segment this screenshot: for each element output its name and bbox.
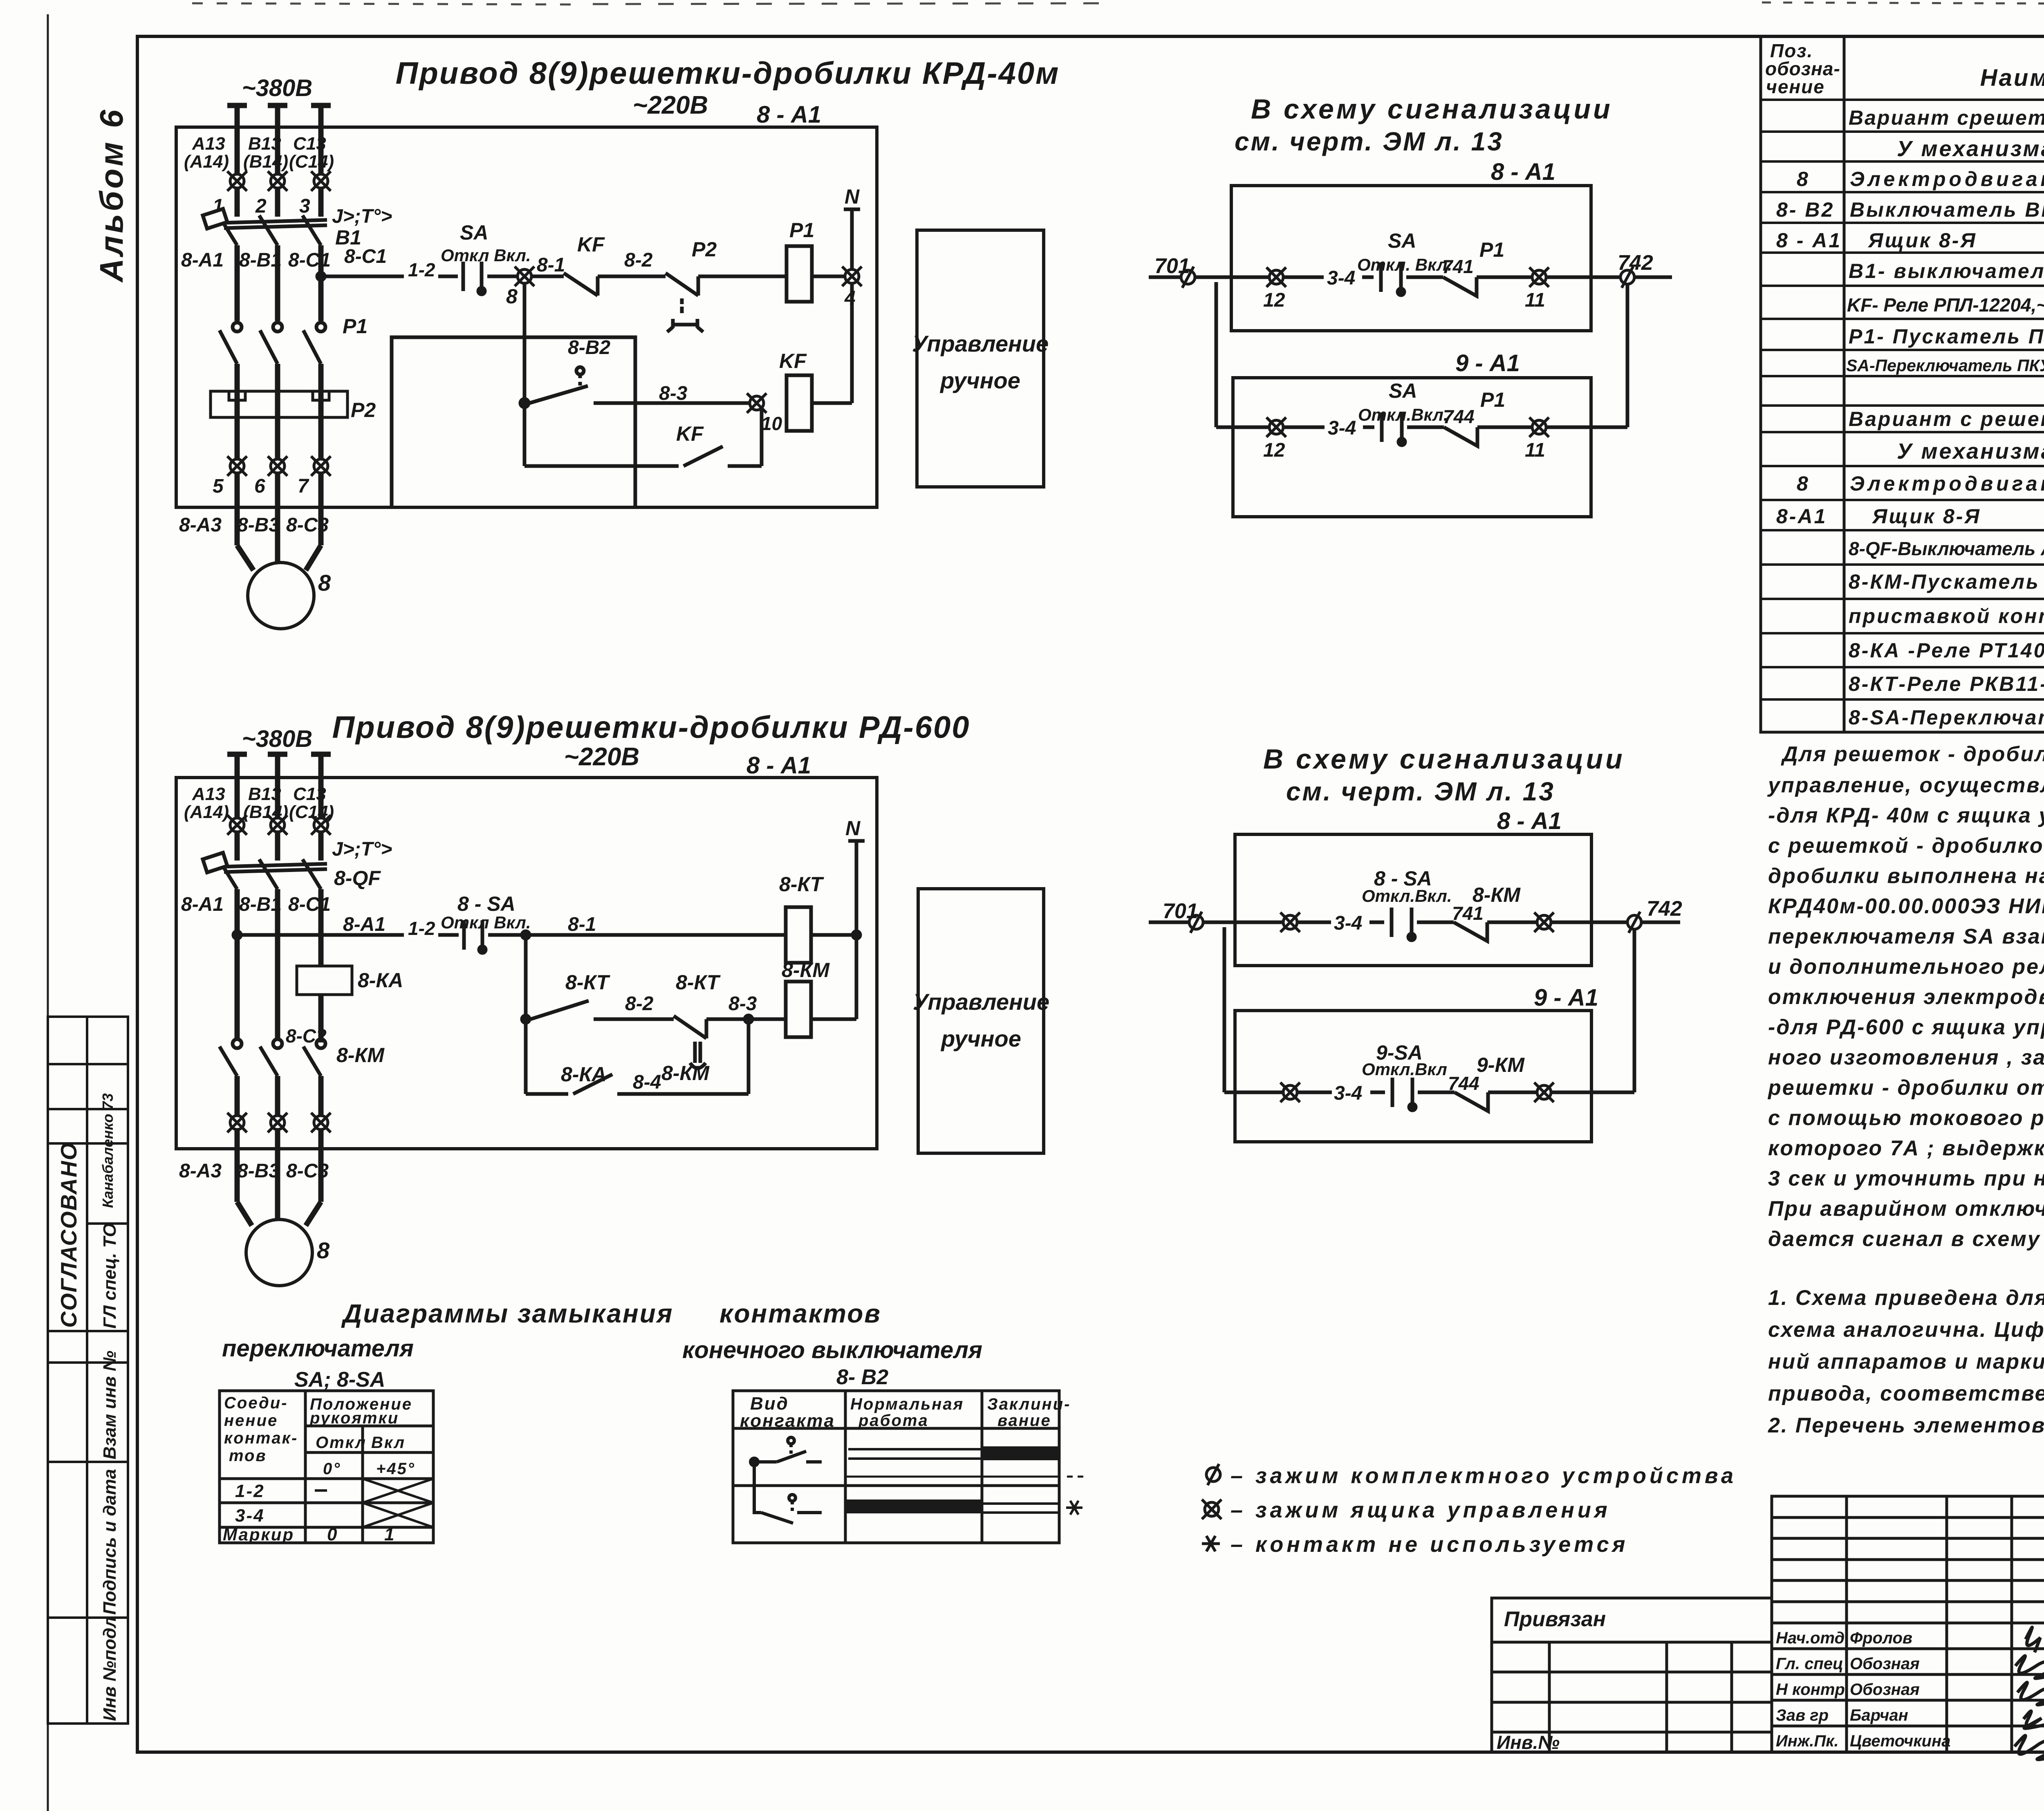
svg-text:А13: А13	[192, 784, 225, 804]
svg-text:привода, соответственно меняе: привода, соответственно меняется на 9.	[1768, 1382, 2044, 1405]
svg-text:управление, осуществляемое·: управление, осуществляемое·	[1767, 773, 2044, 797]
svg-text:742: 742	[1618, 251, 1653, 275]
svg-text:В13: В13	[248, 134, 281, 154]
svg-text:6: 6	[254, 475, 265, 497]
svg-text:дается сигнал в схему ав: дается сигнал в схему аварийной сигнализ…	[1768, 1227, 2044, 1251]
svg-text:Зав гр: Зав гр	[1776, 1706, 1829, 1724]
svg-text:чение: чение	[1766, 76, 1825, 97]
svg-text:8 - А1: 8 - А1	[757, 101, 821, 128]
svg-text:8 - А1: 8 - А1	[1491, 159, 1555, 185]
svg-text:нение: нение	[224, 1412, 278, 1430]
svg-text:8-3: 8-3	[659, 383, 688, 404]
svg-text:5: 5	[213, 475, 224, 497]
svg-text:Маркир: Маркир	[223, 1525, 294, 1544]
svg-text:ного изготовления , защита: ного изготовления , защита электродвигат…	[1768, 1046, 2044, 1069]
svg-text:1-2: 1-2	[235, 1481, 265, 1501]
svg-text:8-А1: 8-А1	[181, 894, 224, 915]
svg-text:Привязан: Привязан	[1504, 1607, 1606, 1631]
svg-text:В1- выключатель АЕ2033-10УЗ,: В1- выключатель АЕ2033-10УЗ, Jр 8А	[1849, 260, 2044, 282]
svg-text:Откл: Откл	[316, 1434, 367, 1452]
svg-text:ний аппаратов и маркировки: ний аппаратов и маркировки целей, обозна…	[1768, 1350, 2044, 1374]
svg-text:8-А3: 8-А3	[179, 514, 222, 536]
svg-text:8 - А1: 8 - А1	[1497, 808, 1562, 834]
svg-text:8-КМ-Пускатель ПМЛ110104, ~22: 8-КМ-Пускатель ПМЛ110104, ~220В с	[1849, 570, 2044, 593]
svg-text:(А14): (А14)	[184, 152, 229, 172]
svg-text:Электродвигатель 4А112МВ8: Электродвигатель 4А112МВ8	[1850, 168, 2044, 191]
svg-text:Привод 8(9)решетки-дробилки РД: Привод 8(9)решетки-дробилки РД-600	[332, 710, 970, 745]
svg-text:Инж.Пк.: Инж.Пк.	[1776, 1732, 1839, 1750]
svg-text:8-КМ: 8-КМ	[782, 959, 830, 982]
svg-text:которого 7А ; выдержку вре: которого 7А ; выдержку времени реле 8- К…	[1768, 1136, 2044, 1160]
svg-text:1. Схема приведена для прив: 1. Схема приведена для привода 8 Для при…	[1768, 1286, 2044, 1310]
svg-text:Привод 8(9)решетки-дробилки КР: Привод 8(9)решетки-дробилки КРД-40м	[396, 56, 1060, 91]
svg-text:рукоятки: рукоятки	[309, 1409, 399, 1427]
svg-text:N: N	[845, 185, 860, 208]
svg-text:КРД40м-00.00.000ЭЗ НИКТИ ГХ: КРД40м-00.00.000ЭЗ НИКТИ ГХ г. Киев с ус…	[1768, 894, 2044, 918]
svg-text:работа: работа	[858, 1412, 929, 1430]
svg-text:Инв №подл: Инв №подл	[100, 1616, 120, 1721]
svg-text:7: 7	[298, 475, 309, 497]
svg-text:2. Перечень элементов приве: 2. Перечень элементов приведен на один п…	[1768, 1414, 2044, 1437]
svg-text:С13: С13	[293, 134, 326, 154]
svg-text:Выключатель ВПК-1110: Выключатель ВПК-1110	[1850, 198, 2044, 221]
svg-text:8- В2: 8- В2	[836, 1365, 888, 1389]
svg-text:Р2: Р2	[351, 399, 376, 421]
svg-text:контактов: контактов	[719, 1299, 881, 1328]
svg-text:+45°: +45°	[376, 1460, 415, 1478]
svg-text:8-А1: 8-А1	[343, 914, 385, 935]
svg-text:контак-: контак-	[224, 1429, 298, 1447]
svg-text:При аварийном отключении эле: При аварийном отключении электродвигател…	[1768, 1197, 2044, 1221]
svg-text:см. черт. ЭМ л. 13: см. черт. ЭМ л. 13	[1286, 777, 1555, 806]
svg-text:(В14): (В14)	[243, 802, 288, 822]
svg-text:Откл.Вкл.: Откл.Вкл.	[1362, 886, 1452, 905]
svg-text:SА: SА	[460, 221, 488, 244]
svg-text:3-4: 3-4	[1328, 417, 1356, 439]
svg-text:вание: вание	[997, 1412, 1051, 1430]
svg-text:3 сек и уточнить при нал: 3 сек и уточнить при наладке и эксплуата…	[1768, 1167, 2044, 1190]
svg-text:~380В: ~380В	[242, 75, 313, 101]
svg-text:переключателя SА взамен: переключателя SА взамен кнопок управлени…	[1768, 925, 2044, 948]
svg-text:Наименование: Наименование	[1980, 65, 2044, 91]
svg-text:-для РД-600 с ящика управл: -для РД-600 с ящика управления индивидуа…	[1768, 1015, 2044, 1039]
svg-text:В схему сигнализации: В схему сигнализации	[1263, 744, 1625, 775]
svg-text:Р1: Р1	[1480, 388, 1505, 411]
svg-text:8-А3: 8-А3	[179, 1160, 222, 1182]
svg-text:8-КТ: 8-КТ	[565, 971, 611, 994]
svg-text:8-В1: 8-В1	[239, 249, 282, 271]
svg-text:Откл.Вкл: Откл.Вкл	[1362, 1060, 1447, 1079]
svg-text:ручное: ручное	[939, 368, 1020, 393]
svg-text:8-В3: 8-В3	[237, 1160, 280, 1182]
svg-text:8-С3: 8-С3	[286, 514, 329, 536]
svg-text:решетки - дробилки от перег: решетки - дробилки от перегрузки осущест…	[1767, 1076, 2044, 1100]
svg-text:8-КА -Реле РТ140/10УХЛ4 , 7А: 8-КА -Реле РТ140/10УХЛ4 , 7А	[1849, 639, 2044, 662]
svg-text:8 - А1: 8 - А1	[746, 752, 811, 779]
svg-text:Вариант с решеткой-дробилкой Р: Вариант с решеткой-дробилкой РД-600	[1849, 408, 2044, 430]
svg-text:конгакта: конгакта	[740, 1411, 835, 1431]
svg-text:8: 8	[317, 1237, 330, 1263]
svg-text:8: 8	[318, 570, 331, 596]
svg-text:У механизма: У механизма	[1897, 439, 2044, 464]
svg-text:11: 11	[1525, 289, 1545, 311]
svg-text:Соеди-: Соеди-	[224, 1394, 288, 1412]
svg-text:8-2: 8-2	[624, 249, 653, 271]
svg-text:1-2: 1-2	[408, 918, 435, 939]
svg-text:Откл. Вкл.: Откл. Вкл.	[1357, 255, 1452, 274]
svg-text:741: 741	[1442, 256, 1474, 277]
svg-text:Р1: Р1	[789, 219, 814, 242]
svg-text:8-С1: 8-С1	[288, 249, 331, 271]
svg-text:с решеткой - дробилкой. Схема: с решеткой - дробилкой. Схема управления…	[1768, 834, 2044, 858]
svg-text:~220В: ~220В	[564, 743, 639, 771]
svg-text:Управление: Управление	[912, 331, 1049, 356]
svg-text:1: 1	[384, 1524, 395, 1544]
svg-text:9 - А1: 9 - А1	[1455, 350, 1520, 377]
svg-text:8-1: 8-1	[568, 914, 596, 935]
svg-text:8-QF-Выключатель АЕ2026-10Н-2: 8-QF-Выключатель АЕ2026-10Н-20УЗА, Jр 4А	[1849, 538, 2044, 559]
svg-text:С13: С13	[293, 784, 326, 804]
svg-text:В схему сигнализации: В схему сигнализации	[1251, 94, 1613, 125]
svg-text:конечного выключателя: конечного выключателя	[682, 1337, 982, 1363]
svg-text:У механизма: У механизма	[1897, 137, 2044, 161]
svg-text:KF- Реле РПЛ-12204,~220В, ТУ16: KF- Реле РПЛ-12204,~220В, ТУ16-523 554-7…	[1847, 294, 2044, 316]
svg-text:11: 11	[1525, 439, 1545, 461]
svg-text:701: 701	[1154, 254, 1190, 278]
svg-text:701: 701	[1163, 899, 1198, 923]
svg-text:Откл Вкл.: Откл Вкл.	[441, 913, 531, 932]
svg-text:742: 742	[1647, 897, 1682, 921]
svg-text:8-КТ: 8-КТ	[676, 971, 721, 994]
svg-text:тов: тов	[229, 1447, 267, 1465]
svg-text:Гл. спец: Гл. спец	[1776, 1655, 1843, 1673]
svg-text:– зажим комплектного ус: – зажим комплектного устройства	[1230, 1464, 1737, 1488]
svg-text:8-С1: 8-С1	[288, 894, 331, 915]
svg-text:SА: SА	[1388, 229, 1416, 252]
svg-text:В13: В13	[248, 784, 281, 804]
svg-text:8: 8	[1797, 472, 1810, 495]
svg-text:Канабаленко 73: Канабаленко 73	[99, 1093, 116, 1208]
svg-text:3-4: 3-4	[1327, 267, 1355, 289]
svg-text:8-А1: 8-А1	[181, 249, 224, 271]
svg-text:Ящик 8-Я: Ящик 8-Я	[1871, 505, 1981, 528]
svg-text:переключателя: переключателя	[222, 1335, 414, 1362]
svg-text:8: 8	[1797, 168, 1810, 191]
svg-text:9-КМ: 9-КМ	[1477, 1053, 1525, 1076]
svg-text:8-С1: 8-С1	[344, 246, 387, 267]
svg-text:Альбом 6: Альбом 6	[93, 108, 130, 283]
svg-text:(В14): (В14)	[243, 152, 288, 172]
svg-text:10: 10	[761, 413, 782, 434]
svg-text:– зажим ящика упра: – зажим ящика управления	[1230, 1498, 1611, 1522]
svg-text:8-В1: 8-В1	[239, 894, 282, 915]
svg-text:8-С3: 8-С3	[286, 1160, 329, 1182]
svg-text:KF: KF	[779, 350, 807, 372]
svg-text:8- В2: 8- В2	[1776, 198, 1834, 221]
svg-text:Р1: Р1	[1479, 238, 1504, 261]
svg-text:приставкой контактной ПКЛ-11: приставкой контактной ПКЛ-1104	[1849, 605, 2044, 628]
svg-text:Инв.№: Инв.№	[1497, 1732, 1560, 1753]
svg-text:Для решеток - дробилок пре: Для решеток - дробилок предусматривается…	[1781, 742, 2044, 766]
svg-text:Н контр: Н контр	[1776, 1681, 1845, 1699]
svg-text:(С14): (С14)	[289, 152, 334, 172]
svg-text:8-КА: 8-КА	[358, 969, 403, 992]
svg-text:-для КРД- 40м с ящика упра: -для КРД- 40м с ящика управления, постав…	[1768, 804, 2044, 827]
svg-text:1-2: 1-2	[408, 259, 435, 280]
svg-text:8-1: 8-1	[537, 254, 565, 276]
svg-text:8 - А1: 8 - А1	[1776, 229, 1842, 252]
svg-text:9 - А1: 9 - А1	[1534, 984, 1598, 1011]
svg-text:12: 12	[1263, 439, 1285, 461]
svg-text:Подпись и дата: Подпись и дата	[100, 1469, 120, 1615]
svg-text:4: 4	[844, 287, 856, 309]
svg-text:KF: KF	[577, 233, 605, 256]
svg-text:12: 12	[1263, 289, 1285, 311]
svg-text:СОГЛАСОВАНО: СОГЛАСОВАНО	[56, 1142, 81, 1328]
svg-text:(А14): (А14)	[184, 802, 229, 822]
svg-text:Заклини-: Заклини-	[987, 1395, 1071, 1413]
svg-text:8-КТ: 8-КТ	[779, 873, 825, 896]
svg-text:Р2: Р2	[692, 238, 717, 261]
svg-text:Нач.отд: Нач.отд	[1776, 1629, 1845, 1647]
svg-text:8-С2: 8-С2	[286, 1025, 327, 1047]
svg-text:8 - SА: 8 - SА	[457, 892, 515, 915]
svg-text:J>;Т°>: J>;Т°>	[332, 206, 392, 227]
svg-text:Электродвигатель. 4АМХ80В4: Электродвигатель. 4АМХ80В4	[1850, 472, 2044, 495]
svg-text:Нормальная: Нормальная	[850, 1395, 964, 1413]
svg-text:SА; 8-SА: SА; 8-SА	[294, 1368, 385, 1392]
svg-text:Р1: Р1	[343, 315, 368, 338]
svg-text:3-4: 3-4	[1334, 1083, 1362, 1104]
svg-text:8-SА-Переключатель ПКУЗ-14U-0: 8-SА-Переключатель ПКУЗ-14U-0103В	[1849, 706, 2044, 729]
svg-text:8-QF: 8-QF	[334, 867, 381, 890]
svg-text:Барчан: Барчан	[1850, 1706, 1908, 1724]
svg-text:отключения электродвигателя: отключения электродвигателя при перегруз…	[1768, 985, 2044, 1009]
svg-text:Взам инв №: Взам инв №	[100, 1351, 120, 1459]
svg-text:Цветочкина: Цветочкина	[1850, 1732, 1950, 1750]
svg-text:Откл.Вкл.: Откл.Вкл.	[1358, 405, 1448, 424]
svg-text:8-КА: 8-КА	[561, 1063, 606, 1086]
svg-text:Вкл: Вкл	[371, 1434, 406, 1452]
svg-text:Обозная: Обозная	[1850, 1655, 1920, 1673]
svg-text:Откл Вкл.: Откл Вкл.	[441, 246, 531, 265]
svg-text:SА-Переключатель ПКУЗ-14U-0103: SА-Переключатель ПКУЗ-14U-01038, ТУ16-64…	[1846, 356, 2044, 375]
svg-text:3-4: 3-4	[235, 1506, 265, 1526]
svg-text:(С14): (С14)	[289, 802, 334, 822]
svg-text:схема аналогична. Цифра 8: схема аналогична. Цифра 8 в левой части …	[1768, 1318, 2044, 1342]
svg-text:дробилки выполнена на ос: дробилки выполнена на основании чертежа	[1768, 864, 2044, 888]
svg-text:N: N	[845, 817, 861, 840]
svg-text:~380В: ~380В	[242, 726, 313, 752]
svg-text:Р1- Пускатель ПМЕ-112, ~220В: Р1- Пускатель ПМЕ-112, ~220В	[1849, 325, 2044, 348]
svg-text:3: 3	[299, 195, 310, 217]
svg-text:Диаграммы замыкания: Диаграммы замыкания	[341, 1299, 673, 1328]
svg-text:Обозная: Обозная	[1850, 1681, 1920, 1699]
svg-text:8-3: 8-3	[728, 993, 757, 1015]
svg-text:Ящик 8-Я: Ящик 8-Я	[1867, 229, 1977, 252]
svg-text:Управление: Управление	[913, 989, 1049, 1015]
svg-text:8-2: 8-2	[625, 993, 654, 1015]
svg-text:8-КМ: 8-КМ	[1472, 883, 1521, 906]
svg-text:8: 8	[506, 285, 518, 308]
svg-text:см. черт. ЭМ л. 13: см. черт. ЭМ л. 13	[1235, 127, 1504, 156]
svg-text:J>;Т°>: J>;Т°>	[332, 838, 392, 860]
svg-text:8-А1: 8-А1	[1776, 505, 1827, 528]
svg-text:8-4: 8-4	[633, 1071, 661, 1093]
svg-text:Фролов: Фролов	[1850, 1629, 1912, 1647]
svg-text:SА: SА	[1389, 379, 1417, 402]
svg-text:744: 744	[1448, 1073, 1479, 1094]
svg-text:744: 744	[1443, 406, 1475, 427]
svg-text:ручное: ручное	[940, 1026, 1021, 1051]
svg-text:Вариант срешеткой-дробилкой КР: Вариант срешеткой-дробилкой КРД-40м	[1849, 106, 2044, 129]
svg-text:8-В2: 8-В2	[568, 337, 610, 359]
svg-text:8-КТ-Реле РКВ11-33-122УХЛ4: 8-КТ-Реле РКВ11-33-122УХЛ4	[1849, 672, 2044, 695]
svg-text:8-КМ: 8-КМ	[661, 1062, 710, 1085]
svg-text:0°: 0°	[323, 1460, 341, 1478]
svg-text:8-В3: 8-В3	[237, 514, 280, 536]
svg-text:~220В: ~220В	[633, 91, 708, 119]
svg-text:2: 2	[255, 195, 267, 217]
svg-text:А13: А13	[192, 134, 225, 154]
svg-text:3-4: 3-4	[1334, 912, 1362, 934]
svg-text:KF: KF	[676, 422, 704, 445]
svg-text:ГЛ спец. ТО: ГЛ спец. ТО	[100, 1223, 120, 1329]
svg-text:– контакт не используется: – контакт не используется	[1230, 1532, 1628, 1557]
svg-text:и дополнительного реле: и дополнительного реле KF для аварийного	[1768, 955, 2044, 979]
svg-text:0: 0	[327, 1524, 338, 1544]
svg-text:с помощью токового реле: с помощью токового реле 8-КА, ток срабат…	[1768, 1106, 2044, 1130]
svg-text:8-КМ: 8-КМ	[336, 1044, 385, 1067]
